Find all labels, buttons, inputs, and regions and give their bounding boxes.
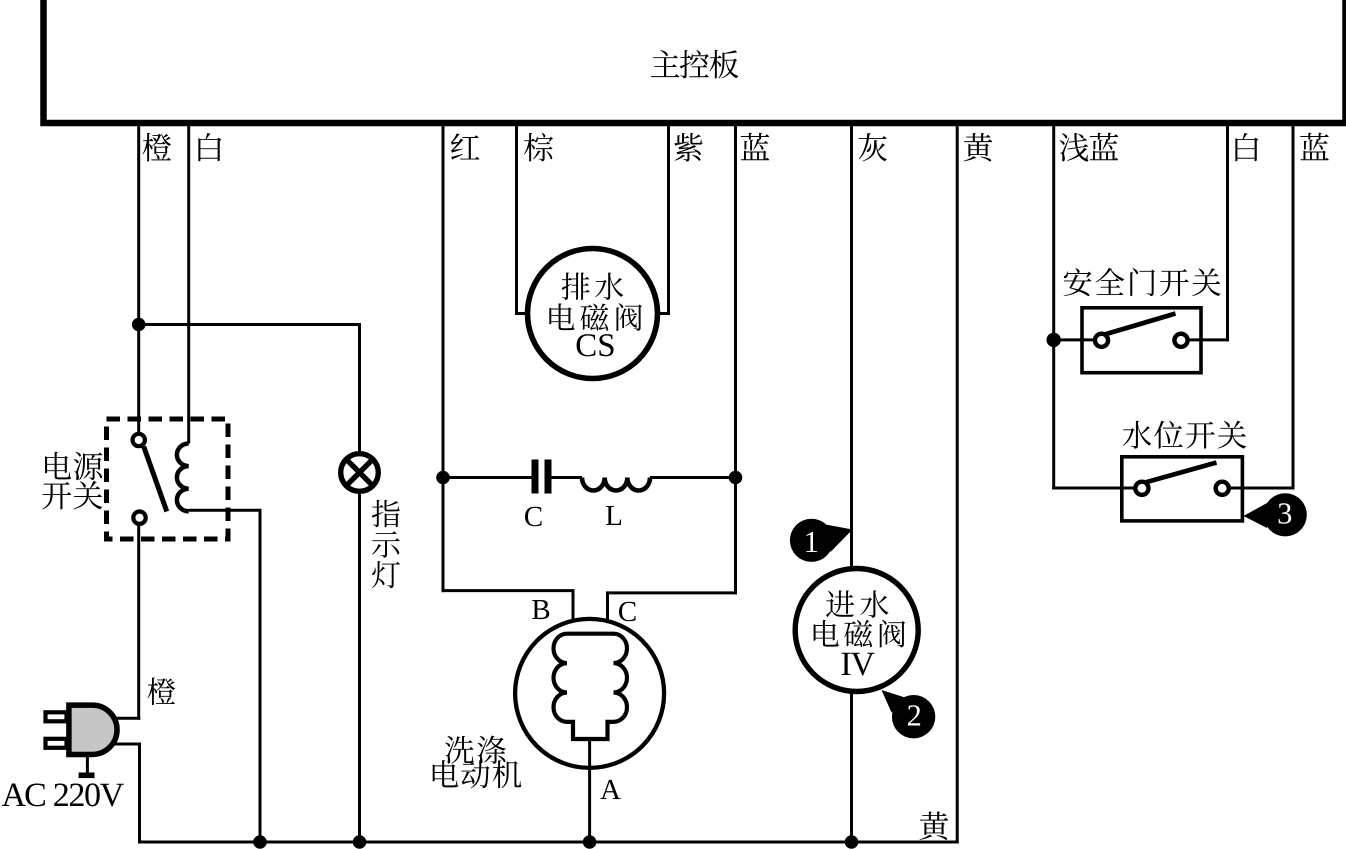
label 洗涤电动机 xyxy=(433,736,522,789)
callout 1 (test point on grey wire) xyxy=(790,519,853,562)
wire: yellow drop from board to bottom bus xyxy=(956,125,959,844)
wire: brown drop from board to drain valve xyxy=(515,125,529,314)
label IV xyxy=(842,653,875,676)
inlet solenoid valve IV (进水电磁阀) xyxy=(795,569,918,692)
wire: inlet valve to bottom bus xyxy=(850,692,853,843)
label 橙 (at plug) xyxy=(147,677,175,705)
wire: plug lower lead to bottom bus xyxy=(113,744,141,844)
wire: blue branch down to motor terminal C xyxy=(606,478,737,634)
label 黄 (yellow) xyxy=(964,133,993,161)
callout 3 (test point on water level switch) xyxy=(1244,493,1307,536)
water switch right terminal xyxy=(1216,482,1229,495)
door switch blade xyxy=(1105,314,1176,335)
junction: orange wire / lamp branch xyxy=(132,318,146,332)
safety door switch (安全门开关) label xyxy=(1064,268,1221,296)
label 蓝 (blue, right) xyxy=(1300,133,1329,160)
junction: motor branch on bus xyxy=(583,835,597,849)
wire: blue drop from board to water level switch xyxy=(1292,125,1295,490)
wire: blue drop from board xyxy=(734,125,737,478)
motor winding xyxy=(553,634,627,739)
wire: light-blue drop from board to water level switch xyxy=(1052,125,1055,490)
label B xyxy=(532,600,549,619)
label 橙 (orange) xyxy=(142,133,171,162)
label CS xyxy=(577,334,614,356)
junction: light-blue wire / door switch xyxy=(1047,333,1061,347)
bottom bus wire (yellow return) xyxy=(138,841,959,844)
junction: red wire / motor branch xyxy=(436,471,450,485)
wire: light-blue wire corner to water switch left terminal xyxy=(1052,487,1135,490)
label L xyxy=(606,506,621,525)
water switch left terminal xyxy=(1135,482,1148,495)
inductor L xyxy=(582,478,650,491)
wire: white drop from board to relay coil xyxy=(187,125,190,444)
wire: red drop from board xyxy=(442,125,445,478)
wire: red wire to capacitor xyxy=(443,476,532,479)
junction: coil branch on bus xyxy=(253,835,267,849)
indicator lamp (指示灯) upper lead xyxy=(358,325,361,455)
wire: purple drop from board to drain valve xyxy=(656,125,670,314)
label 棕 (brown) xyxy=(524,133,553,162)
label 白 (white, right) xyxy=(1235,133,1258,161)
power switch S (电源开关) dashed enclosure xyxy=(107,419,229,539)
capacitor C plates xyxy=(532,460,552,494)
label AC 220V xyxy=(2,783,124,806)
label 电源开关 xyxy=(42,452,102,510)
label C xyxy=(525,507,542,526)
junction: blue wire / motor branch xyxy=(729,471,743,485)
washing motor body (洗涤电动机) xyxy=(515,619,664,768)
AC power plug xyxy=(46,705,118,778)
label A xyxy=(600,780,620,799)
drain solenoid valve CS (排水电磁阀) xyxy=(528,249,658,379)
label 紫 (purple) xyxy=(674,133,702,162)
water switch blade xyxy=(1145,463,1217,483)
label 黄 (yellow, bottom) xyxy=(920,812,949,840)
wire: motor terminal A to bottom bus xyxy=(588,739,591,842)
label C (motor) xyxy=(619,602,636,621)
door switch left terminal xyxy=(1095,334,1108,347)
wire: orange from lower contact down to plug xyxy=(113,524,140,720)
wire: branch from orange wire to indicator lamp xyxy=(139,323,361,326)
water level switch (水位开关) label xyxy=(1123,421,1247,449)
junction: grey wire on bottom bus xyxy=(845,835,859,849)
power switch blade xyxy=(144,447,167,512)
label 浅蓝 (light blue) xyxy=(1060,133,1119,162)
door switch right terminal xyxy=(1174,334,1187,347)
wire: white drop from board to door switch xyxy=(1226,125,1229,341)
wire: red branch down to motor terminal B xyxy=(442,478,575,634)
wire: coil output to bus drop xyxy=(189,510,262,842)
wire: inductor to blue wire xyxy=(650,476,736,479)
wire: capacitor to inductor xyxy=(552,476,583,479)
power switch lower contact xyxy=(133,512,145,524)
indicator lamp lower lead xyxy=(358,491,361,843)
safety door switch box xyxy=(1082,308,1201,373)
water level switch box xyxy=(1122,457,1243,521)
callout 2 (test point on inlet valve) xyxy=(882,690,936,738)
main control board (主控板) xyxy=(44,0,1346,123)
relay coil of power switch xyxy=(177,444,189,512)
label 蓝 (blue) xyxy=(741,133,770,160)
junction: lamp branch on bus xyxy=(353,835,367,849)
wire: orange drop from board to power switch xyxy=(137,125,140,434)
wire: door switch right terminal to white wire xyxy=(1186,338,1229,341)
label 白 (white) xyxy=(198,133,221,161)
wire: grey drop from board to inlet valve xyxy=(850,125,853,570)
wire: water switch right terminal to blue wire xyxy=(1228,487,1295,490)
indicator lamp symbol xyxy=(341,454,379,492)
power switch upper contact xyxy=(133,434,145,446)
wire: light-blue wire to door switch left terminal xyxy=(1054,338,1095,341)
label 红 (red) xyxy=(451,133,480,159)
label 指示灯 (vertical) xyxy=(372,500,400,588)
label 灰 (grey) xyxy=(859,133,888,161)
